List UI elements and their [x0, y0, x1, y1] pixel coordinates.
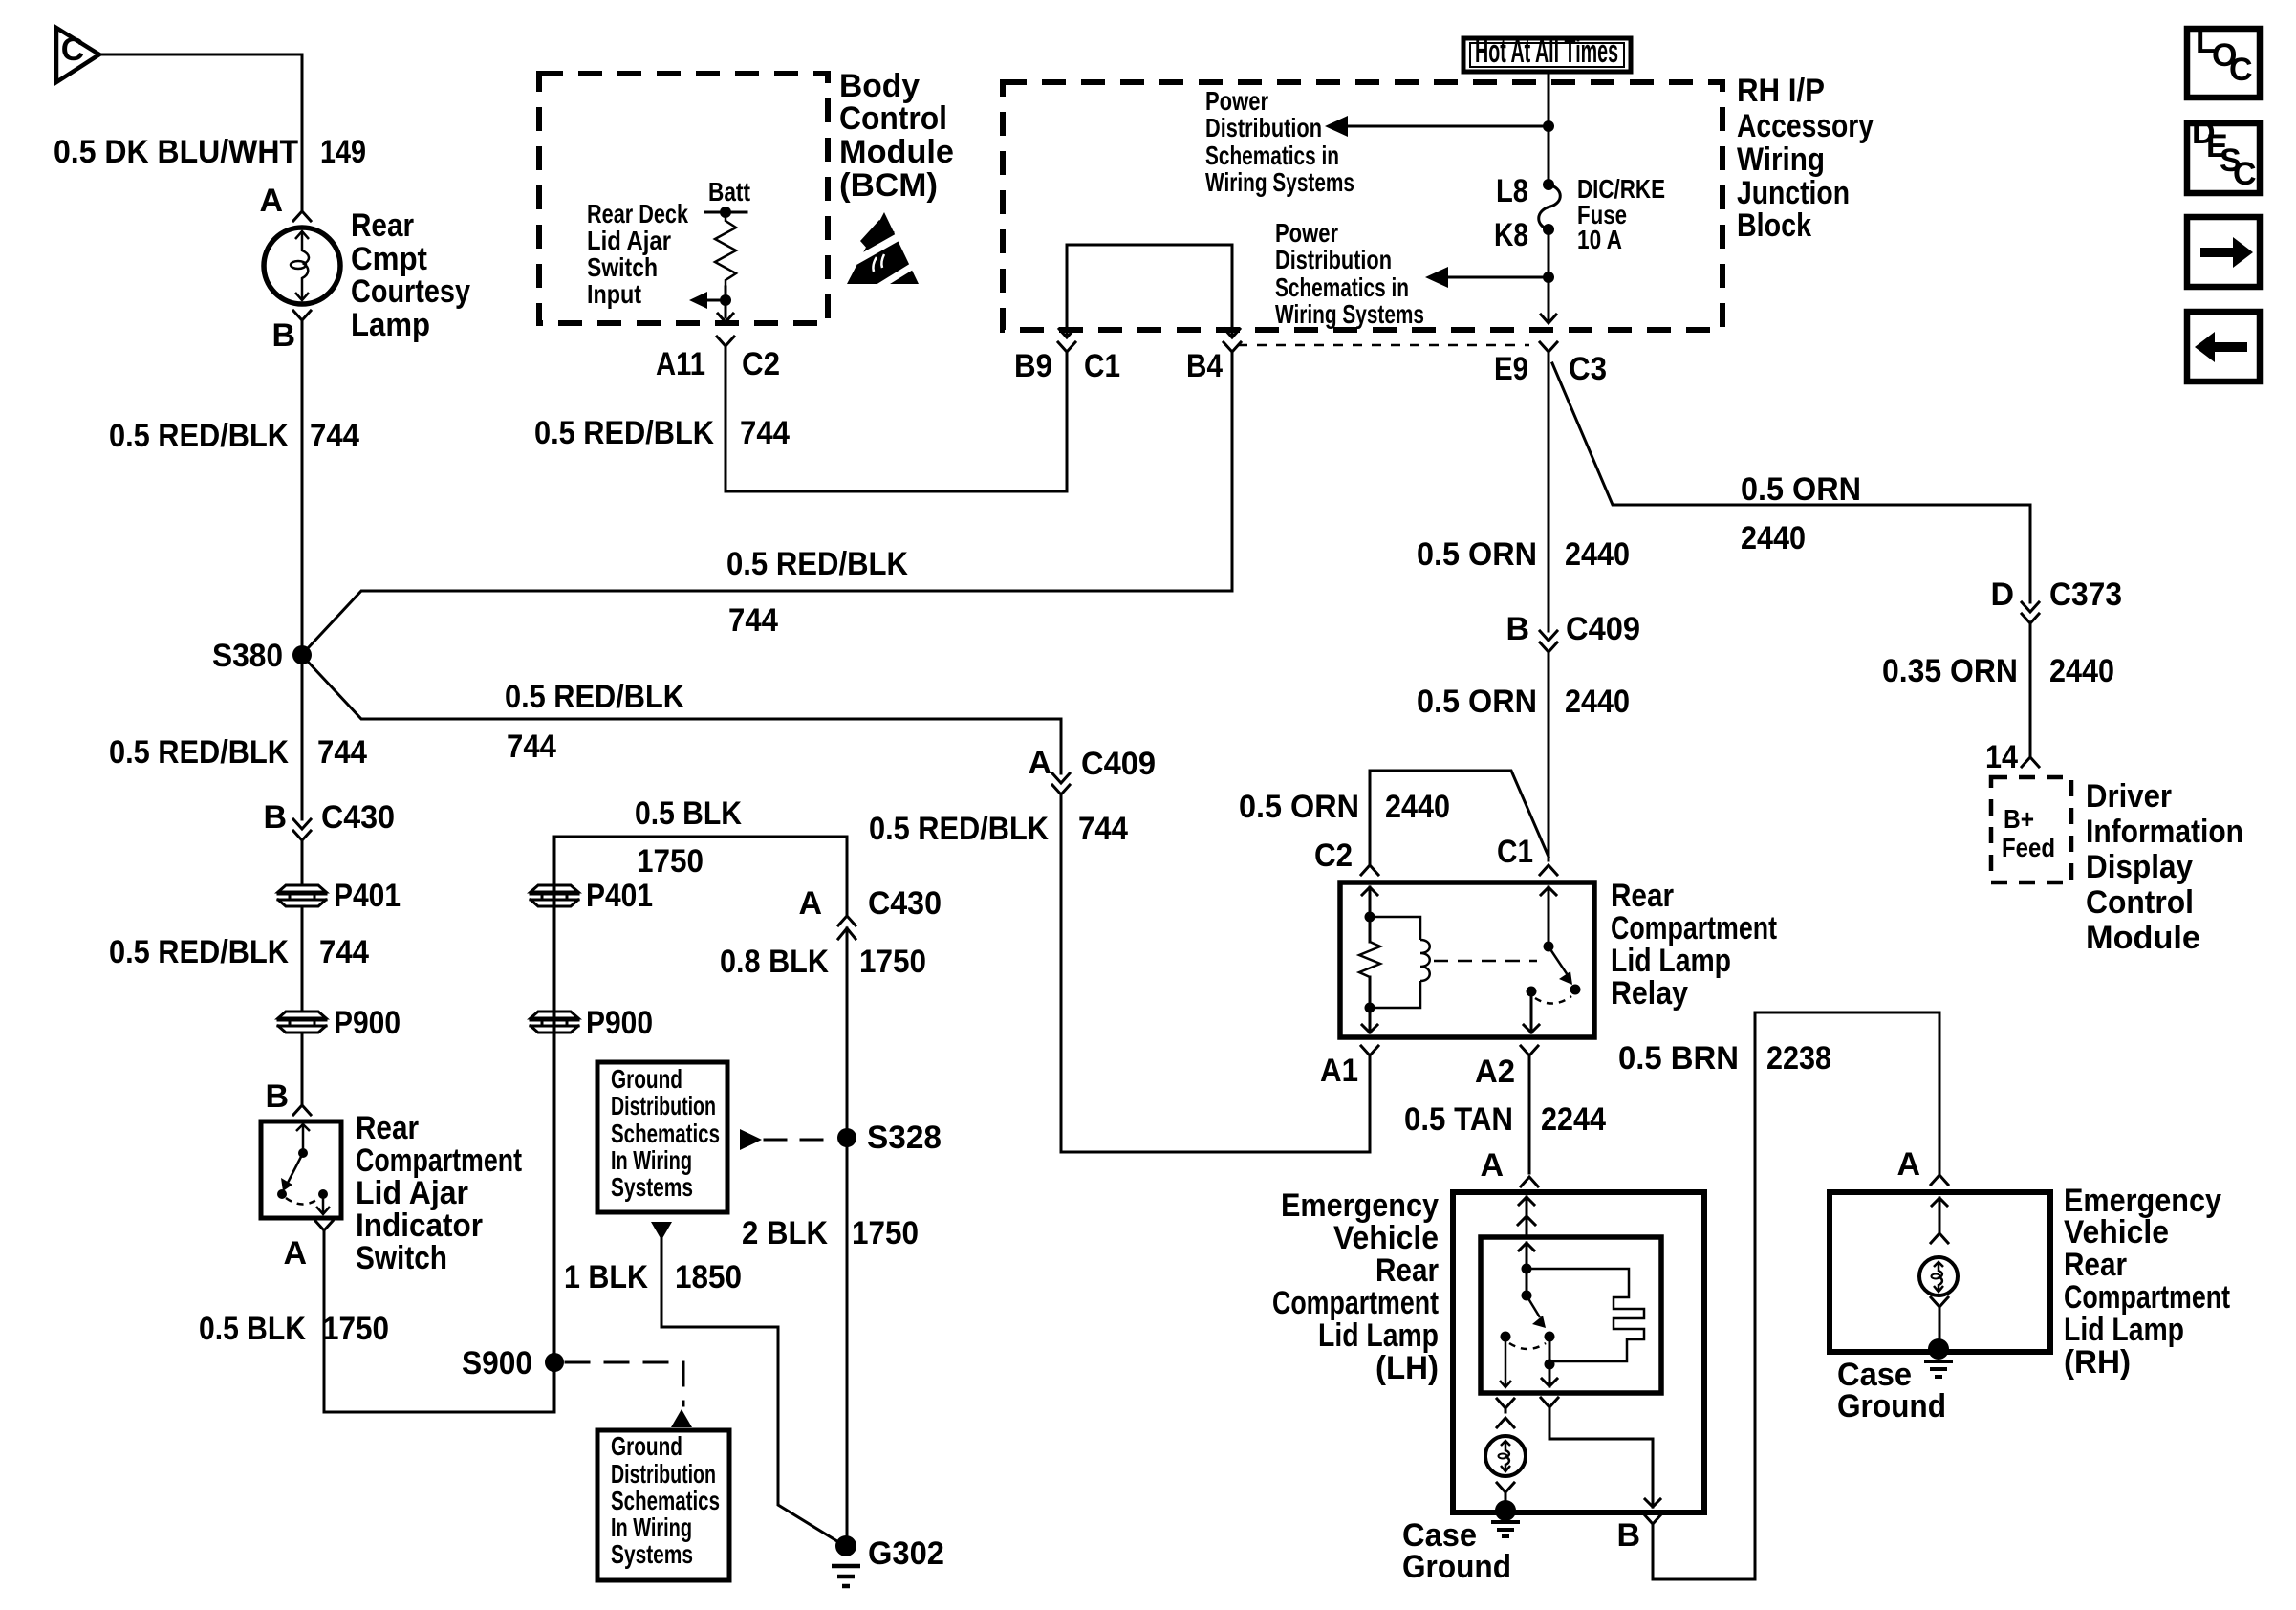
relay box Rear Compartment Lid Lamp Relay	[1340, 882, 1594, 1037]
wire C373 down to DIC module pin 14	[2029, 631, 2032, 755]
relay coil	[1370, 917, 1430, 1008]
svg-text:Ground: Ground	[1402, 1549, 1511, 1585]
splice S900	[545, 1353, 564, 1372]
female terminal below courtesy lamp	[293, 311, 311, 330]
svg-text:744: 744	[1078, 811, 1128, 847]
svg-text:Ground: Ground	[1837, 1388, 1946, 1425]
wire label 2 BLK 1750	[742, 1215, 919, 1251]
svg-text:B: B	[271, 317, 295, 354]
component label Emergency Vehicle Rear Compartment Lid Lamp (LH)	[1272, 1187, 1439, 1386]
svg-text:0.5 ORN: 0.5 ORN	[1741, 471, 1861, 508]
wire S380 down to connector C430 pin B	[301, 664, 304, 819]
male terminal DIC pin 14	[2022, 757, 2039, 767]
svg-text:Lid Ajar: Lid Ajar	[356, 1175, 468, 1211]
svg-text:In Wiring: In Wiring	[611, 1512, 692, 1542]
svg-text:P900: P900	[334, 1005, 401, 1041]
svg-text:Vehicle: Vehicle	[1333, 1220, 1439, 1256]
LH lamp inner switch box	[1481, 1237, 1661, 1393]
svg-text:Ground: Ground	[611, 1064, 682, 1094]
svg-text:A: A	[1028, 745, 1051, 781]
svg-text:Distribution: Distribution	[611, 1091, 716, 1120]
LH lamp outer box Emergency Vehicle Rear Compartment Lid Lamp (LH)	[1453, 1192, 1704, 1512]
svg-text:2 BLK: 2 BLK	[742, 1215, 828, 1251]
svg-text:C409: C409	[1566, 611, 1640, 647]
reference label Ground Distribution Schematics In Wiring Systems (lower)	[611, 1431, 720, 1569]
ESD sensitive device symbol	[847, 212, 925, 291]
svg-text:B: B	[263, 799, 287, 836]
RH case ground dot and symbol	[1924, 1338, 1953, 1377]
LH case ground dot and symbol	[1491, 1500, 1520, 1536]
male terminal above switch	[293, 1105, 311, 1115]
ground distribution box (upper)	[597, 1062, 727, 1212]
female terminal below RH bulb	[1931, 1297, 1948, 1342]
male terminal LH lamp pin A	[1521, 1177, 1538, 1186]
svg-text:Wiring Systems: Wiring Systems	[1275, 299, 1424, 329]
svg-text:A11: A11	[656, 346, 705, 382]
svg-text:Module: Module	[2086, 920, 2200, 956]
svg-text:0.5 RED/BLK: 0.5 RED/BLK	[534, 415, 714, 451]
wire P900 to switch pin B	[301, 1033, 304, 1103]
svg-text:Lid Lamp: Lid Lamp	[1611, 943, 1731, 979]
pin labels B9 / connector C1	[1014, 348, 1120, 384]
wire label 0.5 RED/BLK 744 (BCM feed)	[534, 415, 790, 451]
svg-text:2440: 2440	[2049, 653, 2114, 689]
svg-text:(RH): (RH)	[2064, 1344, 2131, 1381]
svg-text:Wiring Systems: Wiring Systems	[1205, 167, 1354, 197]
svg-text:0.5 TAN: 0.5 TAN	[1404, 1101, 1513, 1138]
B+ Feed dashed box	[1991, 777, 2071, 882]
wire S380 upper branch to B4	[308, 359, 1232, 648]
wire Hot feed down into junction block	[1548, 72, 1550, 185]
reference label B+ Feed	[2002, 804, 2055, 862]
wire C409 pin A down and right up to relay A1	[1061, 801, 1370, 1152]
wire switch A down and right to S900 column	[324, 1238, 554, 1412]
svg-text:Hot At All Times: Hot At All Times	[1475, 33, 1618, 70]
svg-text:0.35 ORN: 0.35 ORN	[1882, 653, 2018, 689]
svg-text:Emergency: Emergency	[1281, 1187, 1439, 1224]
pin labels A11 / connector C2	[656, 346, 780, 382]
svg-text:P401: P401	[586, 878, 653, 914]
female terminal LH pin B	[1644, 1514, 1661, 1531]
wire label 0.5 BRN 2238	[1618, 1040, 1831, 1077]
nav button LOC	[2187, 24, 2260, 98]
relay coil leg C2 internals	[1362, 887, 1377, 1033]
component label Emergency Vehicle Rear Compartment Lid Lamp (RH)	[2064, 1183, 2230, 1381]
svg-text:0.5 RED/BLK: 0.5 RED/BLK	[109, 734, 289, 771]
svg-text:0.5 RED/BLK: 0.5 RED/BLK	[109, 418, 289, 454]
svg-text:744: 744	[310, 418, 359, 454]
wire C409 pin B down to relay C1	[1548, 660, 1550, 860]
svg-text:Switch: Switch	[356, 1240, 447, 1276]
reference label Power Distribution Schematics in Wiring Systems (lower)	[1275, 218, 1424, 329]
svg-text:Driver: Driver	[2086, 778, 2172, 815]
svg-text:A2: A2	[1475, 1054, 1515, 1090]
svg-text:Rear: Rear	[1375, 1252, 1439, 1289]
svg-text:Compartment: Compartment	[1272, 1285, 1439, 1321]
thin connector face line between B4 and E9	[1238, 344, 1529, 347]
RH lamp feed terminal inside box	[1931, 1198, 1948, 1243]
svg-text:B+: B+	[2004, 804, 2034, 834]
svg-text:C: C	[2233, 156, 2257, 192]
svg-text:(BCM): (BCM)	[839, 167, 938, 204]
in-line connector C373 pin D	[1990, 577, 2122, 631]
svg-text:Batt: Batt	[708, 177, 750, 207]
wire 0.5 BRN from LH pin B to RH lamp pin A	[1653, 1012, 1939, 1579]
lamp bulb RH	[1919, 1257, 1958, 1295]
wire relay A2 down to LH lamp pin A	[1528, 1063, 1531, 1173]
reference label Power Distribution Schematics in Wiring Systems (upper)	[1205, 86, 1354, 197]
svg-text:0.5 RED/BLK: 0.5 RED/BLK	[726, 546, 908, 582]
wire E9 down to connector C409 pin B	[1548, 361, 1550, 631]
svg-text:Switch: Switch	[587, 252, 658, 282]
arrow from ground distribution box (right triangle)	[740, 1129, 762, 1150]
svg-text:B4: B4	[1186, 348, 1223, 384]
wire down right P401 column	[553, 837, 556, 1412]
splice S380	[292, 645, 312, 664]
nav button next (right arrow)	[2187, 217, 2260, 287]
female terminal B9	[1058, 342, 1075, 359]
wire resistor down to BCM edge with arrowhead	[718, 287, 733, 322]
wire label 0.5 RED/BLK 744 (lower branch)	[505, 679, 684, 765]
wire label 0.5 RED/BLK 744 (to relay A1)	[869, 811, 1128, 847]
svg-text:S380: S380	[212, 638, 283, 674]
svg-text:Junction: Junction	[1737, 175, 1850, 211]
female terminal E9 with branch	[1540, 342, 1557, 361]
ground G302	[832, 1535, 944, 1586]
fuse DIC/RKE 10A	[1539, 179, 1561, 235]
dashed reference link S900 to ground distribution	[566, 1362, 683, 1405]
svg-text:1750: 1750	[852, 1215, 919, 1251]
wire label 0.5 RED/BLK 744	[109, 934, 369, 970]
svg-text:G302: G302	[868, 1535, 944, 1572]
lamp Rear Cmpt Courtesy Lamp	[264, 228, 340, 304]
svg-text:Body: Body	[839, 68, 920, 104]
female terminal below switch	[315, 1221, 333, 1238]
svg-text:Compartment: Compartment	[1611, 910, 1777, 946]
wire label 0.5 ORN 2440 (C2 branch)	[1239, 789, 1450, 825]
svg-text:10 A: 10 A	[1577, 225, 1622, 254]
LH lamp feed in-line connector inside box	[1518, 1197, 1535, 1237]
svg-text:2244: 2244	[1541, 1101, 1606, 1138]
wire C430 pin A down to G302	[846, 928, 849, 1542]
wire label 0.5 RED/BLK 744 (upper branch)	[726, 546, 908, 639]
svg-text:C1: C1	[1084, 348, 1120, 384]
svg-text:1750: 1750	[859, 944, 926, 980]
in-line connector C430 pin B	[263, 799, 395, 847]
switch internals	[277, 1124, 330, 1214]
nav button previous (left arrow)	[2187, 312, 2260, 381]
splice S328	[837, 1128, 856, 1147]
svg-text:RH I/P: RH I/P	[1737, 73, 1825, 109]
component label Body Control Module (BCM)	[839, 68, 954, 204]
svg-text:P900: P900	[586, 1005, 653, 1041]
grommet P401 (right)	[531, 878, 653, 914]
female terminal B4	[1224, 342, 1241, 359]
svg-text:A: A	[283, 1235, 307, 1272]
in-line connector C409 pin A	[1028, 745, 1156, 801]
wire C430 to grommet P401	[301, 847, 304, 883]
RH lamp box Emergency Vehicle Rear Compartment Lid Lamp (RH)	[1830, 1192, 2050, 1352]
LH mercury switch internals	[1501, 1243, 1555, 1349]
wire label 0.5 RED/BLK 744	[109, 418, 359, 454]
RH I/P Accessory Wiring Junction Block dashed box	[1003, 82, 1722, 330]
female terminal below BCM pin A11	[717, 337, 734, 353]
svg-text:0.5 DK BLU/WHT: 0.5 DK BLU/WHT	[54, 134, 298, 170]
svg-text:Lid Lamp: Lid Lamp	[1318, 1317, 1439, 1354]
wire 0.5 BLK horizontal to ground column	[554, 836, 847, 838]
arrow into ground distribution box (up triangle)	[671, 1409, 692, 1427]
svg-text:Accessory: Accessory	[1737, 108, 1874, 144]
svg-text:Distribution: Distribution	[611, 1459, 716, 1489]
arrow to power distribution schematics (lower)	[1442, 276, 1549, 279]
svg-text:B: B	[265, 1078, 289, 1115]
switch box Rear Compartment Lid Ajar Indicator Switch	[261, 1121, 341, 1218]
svg-text:0.5 ORN: 0.5 ORN	[1417, 684, 1537, 720]
wire ground distribution to G302	[661, 1239, 845, 1546]
svg-text:C373: C373	[2049, 577, 2122, 613]
resistor Rear Deck Lid Ajar Switch input pull-up	[715, 212, 736, 287]
wire label 0.5 DK BLU/WHT 149	[54, 134, 366, 170]
svg-text:C2: C2	[1314, 838, 1353, 874]
svg-text:14: 14	[1985, 739, 2018, 775]
junction dot to power distribution arrow (lower)	[1543, 272, 1554, 283]
component label RH I/P Accessory Wiring Junction Block	[1737, 73, 1874, 244]
svg-text:C: C	[2229, 52, 2253, 88]
wire from triangle C to lamp terminal A	[99, 54, 302, 211]
svg-text:1750: 1750	[637, 843, 704, 880]
component label Driver Information Display Control Module	[2086, 778, 2243, 956]
male terminal above courtesy lamp	[293, 211, 311, 221]
svg-text:B9: B9	[1014, 348, 1052, 384]
svg-text:2440: 2440	[1565, 536, 1630, 573]
wire label 0.5 RED/BLK 744	[109, 734, 367, 771]
svg-text:2238: 2238	[1766, 1040, 1831, 1077]
svg-text:0.8 BLK: 0.8 BLK	[720, 944, 829, 980]
grommet P900 (right)	[531, 1005, 653, 1041]
svg-text:Input: Input	[587, 279, 641, 309]
svg-text:Lid Ajar: Lid Ajar	[587, 226, 671, 255]
svg-text:C430: C430	[868, 885, 942, 922]
svg-text:Systems: Systems	[611, 1172, 693, 1202]
svg-text:Indicator: Indicator	[356, 1207, 483, 1244]
connector triangle C (off-page reference)	[56, 28, 99, 82]
LH lamp bulb leg connectors below inner box	[1497, 1399, 1514, 1427]
fuse label DIC/RKE Fuse 10 A	[1577, 174, 1665, 254]
LH switch left leg down	[1500, 1337, 1511, 1387]
svg-text:S900: S900	[462, 1345, 532, 1382]
svg-text:Control: Control	[839, 100, 947, 137]
grommet P401 (left)	[278, 878, 401, 914]
svg-text:C3: C3	[1569, 351, 1607, 387]
arrow to power distribution schematics (upper)	[1342, 125, 1549, 128]
svg-text:A: A	[798, 885, 822, 922]
female terminal relay A2	[1521, 1046, 1538, 1063]
wire label 1 BLK 1850	[564, 1259, 742, 1295]
svg-text:C1: C1	[1497, 834, 1533, 870]
svg-text:Compartment: Compartment	[2064, 1279, 2230, 1316]
in-line connector C430 pin A	[798, 837, 942, 939]
svg-text:Systems: Systems	[611, 1539, 693, 1569]
svg-text:2440: 2440	[1385, 789, 1450, 825]
branch wire to relay C2	[1370, 771, 1549, 863]
dashed reference link to S328	[765, 1139, 835, 1142]
svg-text:0.5 RED/BLK: 0.5 RED/BLK	[505, 679, 684, 715]
svg-text:Compartment: Compartment	[356, 1142, 522, 1179]
svg-text:744: 744	[507, 729, 556, 765]
reference label Rear Deck Lid Ajar Switch Input	[587, 199, 689, 309]
wire label 0.5 TAN 2244	[1404, 1101, 1606, 1138]
reference label Ground Distribution Schematics In Wiring Systems (upper)	[611, 1064, 720, 1202]
component label Rear Cmpt Courtesy Lamp	[351, 207, 470, 343]
wire S380 lower branch to connector C409 pin A	[308, 662, 1061, 773]
svg-text:B: B	[1505, 611, 1529, 647]
svg-text:L8: L8	[1496, 173, 1528, 209]
svg-text:Schematics in: Schematics in	[1205, 141, 1339, 170]
svg-text:Vehicle: Vehicle	[2064, 1214, 2169, 1251]
LH heater element	[1527, 1269, 1644, 1361]
ground distribution box (lower)	[597, 1430, 729, 1580]
wire fuse K8 down to E9	[1541, 229, 1556, 323]
svg-text:A: A	[1896, 1146, 1920, 1183]
wire label 0.8 BLK 1750	[720, 944, 926, 980]
svg-text:Distribution: Distribution	[1205, 113, 1322, 142]
svg-text:A1: A1	[1320, 1053, 1358, 1089]
female terminal below LH bulb	[1497, 1483, 1514, 1503]
svg-text:Schematics: Schematics	[611, 1486, 720, 1515]
svg-text:0.5 RED/BLK: 0.5 RED/BLK	[869, 811, 1049, 847]
svg-text:744: 744	[317, 734, 367, 771]
svg-text:C: C	[61, 32, 85, 68]
svg-text:Wiring: Wiring	[1737, 141, 1825, 178]
svg-text:E9: E9	[1494, 351, 1528, 387]
svg-text:Power: Power	[1275, 218, 1338, 248]
wire label 0.5 ORN 2440	[1417, 536, 1630, 573]
svg-text:Block: Block	[1737, 207, 1811, 244]
svg-text:0.5 BLK: 0.5 BLK	[199, 1311, 306, 1347]
label Case Ground (RH)	[1837, 1357, 1946, 1425]
arrow below ground distribution box (down triangle)	[651, 1222, 672, 1240]
wire label 0.35 ORN 2440	[1882, 653, 2114, 689]
wire label 0.5 ORN 2440	[1417, 684, 1630, 720]
svg-text:Rear: Rear	[356, 1110, 419, 1146]
wire lamp B down to splice S380	[301, 330, 304, 655]
svg-text:Display: Display	[2086, 849, 2193, 885]
svg-text:0.5 RED/BLK: 0.5 RED/BLK	[109, 934, 289, 970]
pin labels E9 / connector C3	[1494, 351, 1607, 387]
svg-text:Schematics in: Schematics in	[1275, 272, 1409, 302]
branch wire E9 to DIC module	[1552, 363, 2030, 602]
Batt terminal bar with junction dot	[705, 211, 747, 214]
relay actuation dashed link	[1434, 960, 1537, 963]
LH switch output wire to pin B	[1541, 1398, 1660, 1507]
wire label 0.5 BLK 1750	[199, 1311, 389, 1347]
svg-text:C409: C409	[1081, 746, 1156, 782]
svg-text:Rear: Rear	[2064, 1247, 2127, 1283]
svg-text:Rear Deck: Rear Deck	[587, 199, 689, 228]
svg-text:A: A	[259, 183, 283, 219]
svg-text:P401: P401	[334, 878, 401, 914]
male terminal relay C2	[1361, 865, 1378, 875]
svg-text:2440: 2440	[1741, 520, 1806, 556]
svg-text:0.5 ORN: 0.5 ORN	[1239, 789, 1359, 825]
svg-text:1750: 1750	[322, 1311, 389, 1347]
svg-text:K8: K8	[1494, 217, 1528, 253]
svg-text:C430: C430	[321, 799, 395, 836]
svg-text:Power: Power	[1205, 86, 1268, 116]
svg-text:Ground: Ground	[611, 1431, 682, 1461]
wire P401 to P900	[301, 906, 304, 1011]
svg-text:Rear: Rear	[1611, 878, 1674, 914]
label Case Ground (LH)	[1402, 1517, 1511, 1585]
LH switch right leg down	[1542, 1337, 1557, 1386]
svg-text:2440: 2440	[1565, 684, 1630, 720]
svg-text:Distribution: Distribution	[1275, 245, 1392, 274]
svg-text:Information: Information	[2086, 814, 2243, 850]
svg-text:C2: C2	[742, 346, 780, 382]
svg-text:(LH): (LH)	[1375, 1350, 1439, 1386]
svg-text:B: B	[1616, 1517, 1640, 1554]
svg-text:0.5 BRN: 0.5 BRN	[1618, 1040, 1739, 1077]
in-line connector C409 pin B	[1505, 611, 1640, 660]
svg-text:S328: S328	[867, 1120, 942, 1156]
svg-text:D: D	[1990, 577, 2014, 613]
wire label 0.5 BLK 1750	[635, 795, 742, 880]
lamp bulb LH	[1485, 1436, 1526, 1476]
svg-text:0.5 ORN: 0.5 ORN	[1417, 536, 1537, 573]
male terminal relay C1	[1540, 865, 1557, 875]
svg-text:744: 744	[319, 934, 369, 970]
svg-text:1 BLK: 1 BLK	[564, 1259, 648, 1295]
component label Rear Compartment Lid Ajar Indicator Switch	[356, 1110, 522, 1276]
grommet P900 (left)	[278, 1005, 401, 1041]
svg-text:Rear: Rear	[351, 207, 414, 244]
relay switch arm and contacts	[1524, 887, 1581, 1033]
svg-text:Courtesy: Courtesy	[351, 273, 470, 310]
svg-text:744: 744	[728, 602, 778, 639]
svg-text:Schematics: Schematics	[611, 1119, 720, 1148]
svg-text:Feed: Feed	[2002, 833, 2055, 862]
wire label 0.5 ORN 2440 (DIC branch)	[1741, 471, 1861, 556]
relay resistor	[1359, 942, 1380, 977]
svg-text:1850: 1850	[675, 1259, 742, 1295]
Hot At All Times box	[1463, 33, 1631, 72]
junction dot to power distribution arrow (upper)	[1543, 120, 1554, 132]
bridge wire B9 to B4 inside junction block	[1059, 245, 1240, 337]
svg-text:149: 149	[320, 134, 366, 170]
svg-text:Lid Lamp: Lid Lamp	[2064, 1312, 2184, 1348]
svg-text:0.5 BLK: 0.5 BLK	[635, 795, 742, 832]
svg-text:Lamp: Lamp	[351, 307, 430, 343]
switch input tap arrow pointing left	[699, 299, 726, 302]
svg-text:Cmpt: Cmpt	[351, 241, 427, 277]
component label Rear Compartment Lid Lamp Relay	[1611, 878, 1777, 1012]
nav button DESC	[2187, 115, 2260, 193]
male terminal RH lamp pin A	[1931, 1175, 1948, 1185]
svg-text:Control: Control	[2086, 884, 2194, 921]
wire A11 down, right to junction block B9	[726, 353, 1067, 491]
BCM dashed box	[539, 74, 828, 323]
female terminal relay A1	[1361, 1046, 1378, 1063]
svg-text:A: A	[1480, 1147, 1504, 1184]
svg-text:Module: Module	[839, 134, 954, 170]
svg-text:744: 744	[740, 415, 790, 451]
svg-text:In Wiring: In Wiring	[611, 1145, 692, 1175]
svg-text:Relay: Relay	[1611, 975, 1688, 1012]
